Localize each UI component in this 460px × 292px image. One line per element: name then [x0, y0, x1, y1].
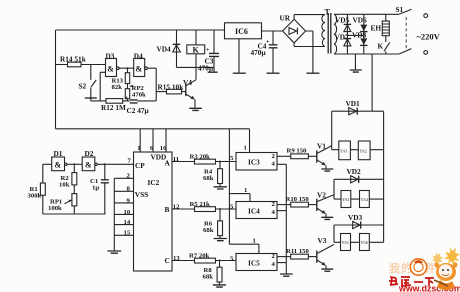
- svg-text:5: 5: [230, 155, 234, 162]
- svg-text:1μ: 1μ: [92, 184, 99, 191]
- resistor R13: [127, 67, 129, 69]
- switch lower contact: [399, 49, 412, 54]
- wire riser C: [333, 225, 335, 242]
- capacitor C3: [213, 30, 215, 72]
- wire bottom rail: [43, 213, 106, 215]
- svg-text:4: 4: [272, 209, 276, 216]
- svg-text:IC2: IC2: [148, 178, 160, 187]
- svg-text:IC3: IC3: [248, 158, 260, 167]
- wire D2 to CP: [97, 163, 133, 165]
- svg-text:YA3: YA3: [342, 197, 349, 202]
- svg-text:YA5: YA5: [342, 240, 349, 245]
- svg-text:K: K: [378, 42, 384, 51]
- resistor R4: [219, 161, 221, 163]
- wire bridge right to ground: [306, 31, 313, 73]
- ground (V1): [321, 169, 333, 171]
- IC U2 (IC2): [134, 152, 173, 271]
- winding box C2: [360, 234, 370, 251]
- wire row A: [332, 149, 384, 151]
- SECTION: watermark: [389, 247, 460, 292]
- ground (IC2 bus): [107, 251, 121, 253]
- switch S2: [91, 65, 96, 101]
- svg-text:R11 150: R11 150: [286, 248, 310, 255]
- wire right rail: [383, 111, 385, 242]
- svg-text:+: +: [266, 40, 270, 46]
- wire left border: [55, 30, 57, 129]
- wire IC6 output: [262, 30, 283, 32]
- wire IC5 pin4: [277, 262, 286, 264]
- ground (rectifier): [354, 54, 356, 70]
- resistor R9: [291, 154, 309, 159]
- svg-text:R9 150: R9 150: [287, 148, 308, 155]
- svg-text:2: 2: [272, 153, 276, 160]
- wire feed to fan section: [371, 54, 373, 111]
- pin 10: [114, 213, 133, 215]
- ground (bridge): [306, 72, 319, 74]
- svg-text:UR: UR: [280, 14, 291, 23]
- svg-text:R7 20k: R7 20k: [189, 253, 210, 260]
- wire row B: [334, 198, 384, 200]
- wire bridge bottom to transformer: [294, 43, 325, 47]
- wire VDD bottom rail: [56, 128, 250, 130]
- pin 14: [114, 224, 133, 226]
- svg-text:10: 10: [124, 209, 131, 216]
- svg-text:4: 4: [272, 261, 276, 268]
- svg-text:CP: CP: [135, 161, 145, 170]
- wire IC3 pin2: [277, 155, 291, 157]
- svg-text:5: 5: [230, 255, 234, 262]
- svg-text:VSS: VSS: [135, 190, 148, 199]
- wire driver ground bus: [285, 164, 287, 273]
- wire VD4/K bottom: [177, 66, 215, 68]
- resistor R7: [195, 258, 216, 263]
- svg-text:&: &: [135, 65, 142, 74]
- svg-text:YA4: YA4: [361, 197, 368, 202]
- pin 15: [114, 234, 133, 236]
- svg-text:R15 10k: R15 10k: [158, 83, 185, 92]
- diode VD4: [176, 30, 178, 67]
- svg-text:S2: S2: [79, 82, 87, 91]
- svg-text:VD3: VD3: [348, 213, 363, 222]
- pin 2: [114, 177, 133, 179]
- winding box A2: [358, 141, 370, 160]
- svg-text:IC6: IC6: [235, 27, 248, 36]
- svg-text:16: 16: [160, 145, 167, 152]
- capacitor C4: [272, 31, 274, 73]
- svg-text:100k: 100k: [48, 205, 62, 212]
- resistor R2: [73, 163, 75, 165]
- wire riser A: [331, 111, 333, 150]
- regulator IC6: [225, 23, 262, 39]
- ground (V4 emitter): [189, 108, 202, 110]
- pin 9: [114, 202, 133, 204]
- potentiometer RP2: [128, 84, 134, 89]
- resistor R5: [195, 207, 216, 212]
- winding box B2: [360, 191, 370, 208]
- ground (V3): [321, 269, 333, 271]
- wire left pin bus: [113, 178, 115, 250]
- svg-text:68k: 68k: [203, 227, 214, 234]
- wire D3 feedback input: [100, 72, 105, 101]
- resistor R12: [106, 99, 123, 104]
- ground (IC6): [238, 39, 240, 73]
- svg-text:C: C: [165, 256, 170, 265]
- wire D4 output down: [147, 68, 156, 101]
- IC U5 (IC5): [229, 244, 259, 253]
- ground (R6): [214, 239, 227, 241]
- svg-text:A: A: [165, 158, 171, 167]
- winding box B1: [341, 191, 351, 208]
- svg-text:VD6: VD6: [353, 16, 368, 25]
- resistor R3: [195, 159, 216, 164]
- svg-text:EH: EH: [371, 24, 382, 33]
- resistor R8: [219, 260, 221, 262]
- svg-text:YA2: YA2: [360, 149, 367, 154]
- svg-text:2: 2: [272, 201, 276, 208]
- svg-text:~220V: ~220V: [417, 32, 441, 42]
- wire mid tap: [347, 34, 363, 36]
- svg-text:+: +: [125, 96, 129, 102]
- wire feed IC4 IC5: [228, 129, 230, 244]
- svg-text:YA1: YA1: [340, 149, 347, 154]
- svg-text:1: 1: [244, 187, 247, 194]
- svg-text:2: 2: [272, 253, 276, 260]
- svg-text:14: 14: [124, 219, 131, 226]
- wire pin1 riser IC3: [249, 129, 251, 153]
- svg-text:IC5: IC5: [248, 259, 260, 268]
- resistor R15: [156, 91, 186, 93]
- svg-text:&: &: [85, 161, 92, 170]
- wire IC3 pin4: [277, 163, 286, 165]
- svg-text:R3 20k: R3 20k: [190, 154, 211, 161]
- ground (R8): [213, 285, 226, 287]
- svg-text:15: 15: [124, 230, 131, 237]
- svg-text:68k: 68k: [203, 273, 214, 280]
- pin 8: [114, 190, 133, 192]
- resistor R10: [291, 202, 309, 207]
- relay coil K: [195, 30, 197, 80]
- svg-text:470k: 470k: [132, 91, 146, 98]
- ground (R4): [214, 187, 227, 189]
- ground (V2): [321, 217, 333, 219]
- dashed linkage: [405, 17, 407, 50]
- wire top rail: [56, 29, 225, 31]
- pins 1 6 16 top: [140, 129, 166, 152]
- resistor R1: [43, 164, 52, 214]
- svg-text:470μ: 470μ: [198, 64, 214, 73]
- svg-text:+: +: [206, 48, 210, 54]
- svg-text:&: &: [107, 65, 114, 74]
- resistor R11: [291, 254, 309, 259]
- ground (driver bus): [280, 274, 293, 276]
- svg-text:300k: 300k: [28, 192, 42, 199]
- svg-text:1: 1: [253, 238, 256, 245]
- resistor R14: [56, 64, 106, 66]
- wire bridge top to transformer: [294, 15, 325, 20]
- svg-text:470μ: 470μ: [251, 48, 267, 57]
- wire IC4 pin2: [277, 204, 291, 206]
- svg-text:T: T: [325, 8, 331, 17]
- svg-text:4: 4: [272, 161, 276, 168]
- svg-text:IC4: IC4: [248, 207, 260, 216]
- svg-text:V3: V3: [318, 236, 327, 245]
- svg-text:VD4: VD4: [157, 45, 172, 54]
- svg-text:82k: 82k: [112, 84, 123, 91]
- svg-text:68k: 68k: [203, 175, 214, 182]
- svg-text:1: 1: [244, 145, 247, 152]
- resistor R6: [219, 208, 221, 210]
- svg-text:R5 21k: R5 21k: [190, 201, 211, 208]
- svg-text:7: 7: [128, 158, 132, 165]
- svg-text:R10 150: R10 150: [286, 196, 310, 203]
- potentiometer RP1: [72, 194, 77, 206]
- svg-text:B: B: [165, 205, 170, 214]
- wire IC5 pin2: [277, 256, 291, 258]
- capacitor C1: [104, 163, 106, 165]
- wire bottom row of oscillator: [91, 100, 156, 102]
- svg-text:K: K: [193, 45, 200, 54]
- svg-text:R12 1M: R12 1M: [101, 103, 126, 112]
- ground (C4): [267, 72, 280, 74]
- wire row C: [334, 241, 384, 243]
- IC U4 (IC4): [229, 194, 250, 202]
- svg-text:R14 51k: R14 51k: [60, 55, 87, 64]
- svg-text:VD1: VD1: [346, 99, 361, 108]
- winding box C1: [341, 234, 351, 251]
- wire IC4 pin4: [277, 210, 286, 212]
- wire D3 to D4: [119, 67, 134, 69]
- svg-text:&: &: [55, 161, 62, 170]
- wire bottom AC rail: [334, 53, 399, 55]
- winding box A1: [339, 141, 351, 160]
- svg-text:C2 47μ: C2 47μ: [127, 106, 150, 115]
- svg-text:10k: 10k: [59, 181, 70, 188]
- wire D1-D2: [67, 163, 82, 165]
- svg-text:YA6: YA6: [361, 240, 368, 245]
- svg-text:1: 1: [137, 145, 140, 152]
- IC U3 (IC3): [236, 153, 277, 171]
- wire top AC rail: [334, 13, 399, 15]
- capacitor C2: [130, 100, 138, 103]
- wire riser B: [333, 179, 335, 199]
- svg-text:VD2: VD2: [347, 167, 362, 176]
